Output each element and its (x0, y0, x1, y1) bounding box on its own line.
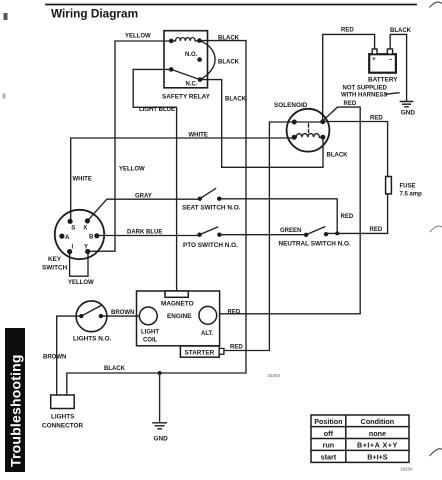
wire: solenoid top-left to starter (224, 122, 294, 351)
key switch circle (55, 210, 104, 259)
svg-text:BLACK: BLACK (327, 153, 349, 159)
svg-text:SEAT SWITCH N.O.: SEAT SWITCH N.O. (182, 204, 241, 211)
wire: brown lights to coil (101, 315, 140, 317)
wire: light blue relay to magneto (133, 69, 176, 291)
svg-text:YELLOW: YELLOW (68, 280, 94, 286)
not supplied pointer dash (386, 93, 400, 94)
svg-text:WITH HARNESS: WITH HARNESS (341, 93, 387, 99)
svg-text:B+I+A X+Y: B+I+A X+Y (357, 441, 398, 450)
wire: battery red to solenoid (323, 34, 375, 121)
gnd symbol bottom (152, 423, 167, 429)
relay curve black (200, 41, 216, 80)
starter box (180, 346, 219, 357)
lights N.O. circle (76, 301, 107, 332)
svg-text:B: B (89, 235, 94, 241)
svg-text:10254: 10254 (268, 373, 281, 378)
pto switch dots (197, 233, 201, 237)
svg-text:A: A (65, 235, 70, 241)
svg-text:S: S (71, 226, 75, 232)
svg-text:GREEN: GREEN (280, 228, 301, 234)
svg-text:start: start (321, 453, 337, 462)
svg-text:GND: GND (401, 110, 416, 117)
svg-text:RED: RED (344, 101, 357, 107)
svg-text:X: X (83, 226, 87, 232)
svg-text:CONNECTOR: CONNECTOR (42, 423, 83, 430)
relay switch arm (171, 69, 200, 79)
svg-text:YELLOW: YELLOW (119, 167, 145, 173)
battery gnd symbol (400, 102, 414, 107)
svg-text:STARTER: STARTER (185, 350, 215, 357)
switch arm pto (200, 227, 218, 235)
starter tab (219, 348, 224, 354)
svg-text:RED: RED (370, 227, 383, 233)
lights switch dots (79, 314, 83, 318)
key switch pin dots (68, 219, 73, 224)
battery post left (372, 49, 377, 54)
relay coil (171, 38, 199, 41)
svg-text:7.5 amp: 7.5 amp (400, 192, 423, 198)
magneto engine box (137, 291, 220, 346)
safety relay box (164, 31, 208, 88)
top rule (46, 4, 416, 6)
fuse body (386, 177, 392, 194)
svg-text:Troubleshooting: Troubleshooting (8, 354, 24, 467)
wire: brown lights left down to connector (57, 316, 82, 395)
svg-text:run: run (323, 441, 335, 450)
svg-text:RED: RED (341, 214, 354, 220)
svg-text:PTO SWITCH N.O.: PTO SWITCH N.O. (183, 242, 238, 249)
wire: solenoid red jog to vertical and alt (220, 107, 360, 314)
svg-text:SOLENOID: SOLENOID (274, 102, 308, 109)
wire: dark blue key B to PTO (97, 235, 200, 237)
solenoid dots (292, 120, 297, 125)
battery post right (387, 49, 392, 54)
svg-text:NEUTRAL SWITCH N.O.: NEUTRAL SWITCH N.O. (279, 241, 352, 248)
wire: relay black top, down right side, bottom black rail, to lights connector (67, 41, 246, 395)
svg-text:BLACK: BLACK (104, 366, 126, 372)
wire: red to fuse (323, 122, 388, 177)
svg-text:BATTERY: BATTERY (368, 77, 398, 84)
light coil circle (139, 307, 157, 325)
junction dot gnd rail (158, 371, 162, 375)
switch arm seat (200, 189, 216, 199)
battery box (369, 54, 396, 72)
wire: green PTO to neutral (219, 234, 306, 236)
solenoid circle (287, 109, 330, 152)
svg-text:FUSE: FUSE (400, 184, 416, 190)
alt circle (199, 306, 217, 324)
svg-text:N.O.: N.O. (185, 52, 198, 58)
svg-text:ENGINE: ENGINE (167, 313, 192, 320)
solenoid contact bar (294, 121, 323, 123)
svg-text:KEY: KEY (48, 256, 62, 263)
solenoid coil (294, 134, 322, 138)
relay dots (169, 39, 174, 44)
svg-text:NOT SUPPLIED: NOT SUPPLIED (343, 86, 388, 92)
relay N.O. dot (197, 57, 202, 62)
wire: battery black to gnd (390, 34, 406, 100)
wire: yellow loop key I-Y (70, 252, 88, 277)
wire: fuse bottom to neutral (326, 194, 388, 234)
solenoid plunger ticks (308, 124, 310, 132)
lights connector box (51, 395, 74, 409)
svg-text:WHITE: WHITE (189, 133, 208, 139)
junction dot fuse/neutral (335, 231, 339, 235)
condition table (311, 415, 409, 462)
seat switch dots (198, 197, 202, 201)
svg-text:B+I+S: B+I+S (367, 453, 388, 462)
svg-text:SAFETY RELAY: SAFETY RELAY (162, 94, 211, 101)
svg-text:Position: Position (314, 417, 342, 426)
svg-text:SWITCH: SWITCH (42, 265, 68, 272)
magneto top tab (165, 291, 188, 297)
svg-text:LIGHTS N.O.: LIGHTS N.O. (73, 336, 112, 343)
svg-text:none: none (369, 429, 386, 438)
switch arm neutral (306, 227, 325, 235)
wire: gray key X to seat (87, 199, 199, 221)
svg-text:10259: 10259 (400, 467, 413, 472)
svg-text:Y: Y (84, 244, 88, 250)
svg-text:BROWN: BROWN (43, 355, 66, 361)
wire: yellow relay to key Y (89, 41, 171, 251)
svg-text:BLACK: BLACK (390, 28, 412, 34)
wire: white (71, 138, 294, 221)
svg-text:Condition: Condition (361, 417, 395, 426)
svg-text:YELLOW: YELLOW (125, 34, 151, 40)
neutral switch dots (304, 233, 308, 237)
svg-text:+: + (372, 56, 376, 63)
svg-text:–: – (389, 56, 393, 63)
svg-text:RED: RED (341, 28, 354, 34)
svg-text:DARK BLUE: DARK BLUE (127, 230, 162, 236)
wire: seat right to junction (219, 199, 337, 234)
svg-text:off: off (324, 429, 334, 438)
svg-text:BLACK: BLACK (218, 35, 240, 41)
svg-text:WHITE: WHITE (73, 177, 92, 183)
svg-text:MAGNETO: MAGNETO (161, 301, 194, 308)
svg-text:LIGHTS: LIGHTS (51, 414, 75, 421)
svg-text:LIGHT: LIGHT (141, 330, 159, 336)
svg-text:BROWN: BROWN (111, 310, 134, 316)
svg-text:RED: RED (230, 345, 243, 351)
svg-text:RED: RED (370, 116, 383, 122)
svg-text:N.C.: N.C. (186, 82, 198, 88)
svg-text:Wiring Diagram: Wiring Diagram (51, 6, 138, 20)
svg-text:BLACK: BLACK (218, 60, 240, 66)
svg-text:RED: RED (228, 310, 241, 316)
svg-text:GND: GND (154, 436, 169, 443)
svg-text:LIGHT BLUE: LIGHT BLUE (139, 107, 175, 113)
svg-text:GRAY: GRAY (135, 194, 152, 200)
wire: relay NC black to solenoid lower-right (200, 80, 323, 168)
svg-text:COIL: COIL (143, 338, 158, 344)
wire: gnd drop (159, 373, 161, 421)
switch arm lights (81, 306, 101, 317)
svg-text:BLACK: BLACK (225, 97, 247, 103)
sidebar Troubleshooting tab (5, 328, 25, 472)
svg-text:ALT.: ALT. (201, 331, 214, 337)
